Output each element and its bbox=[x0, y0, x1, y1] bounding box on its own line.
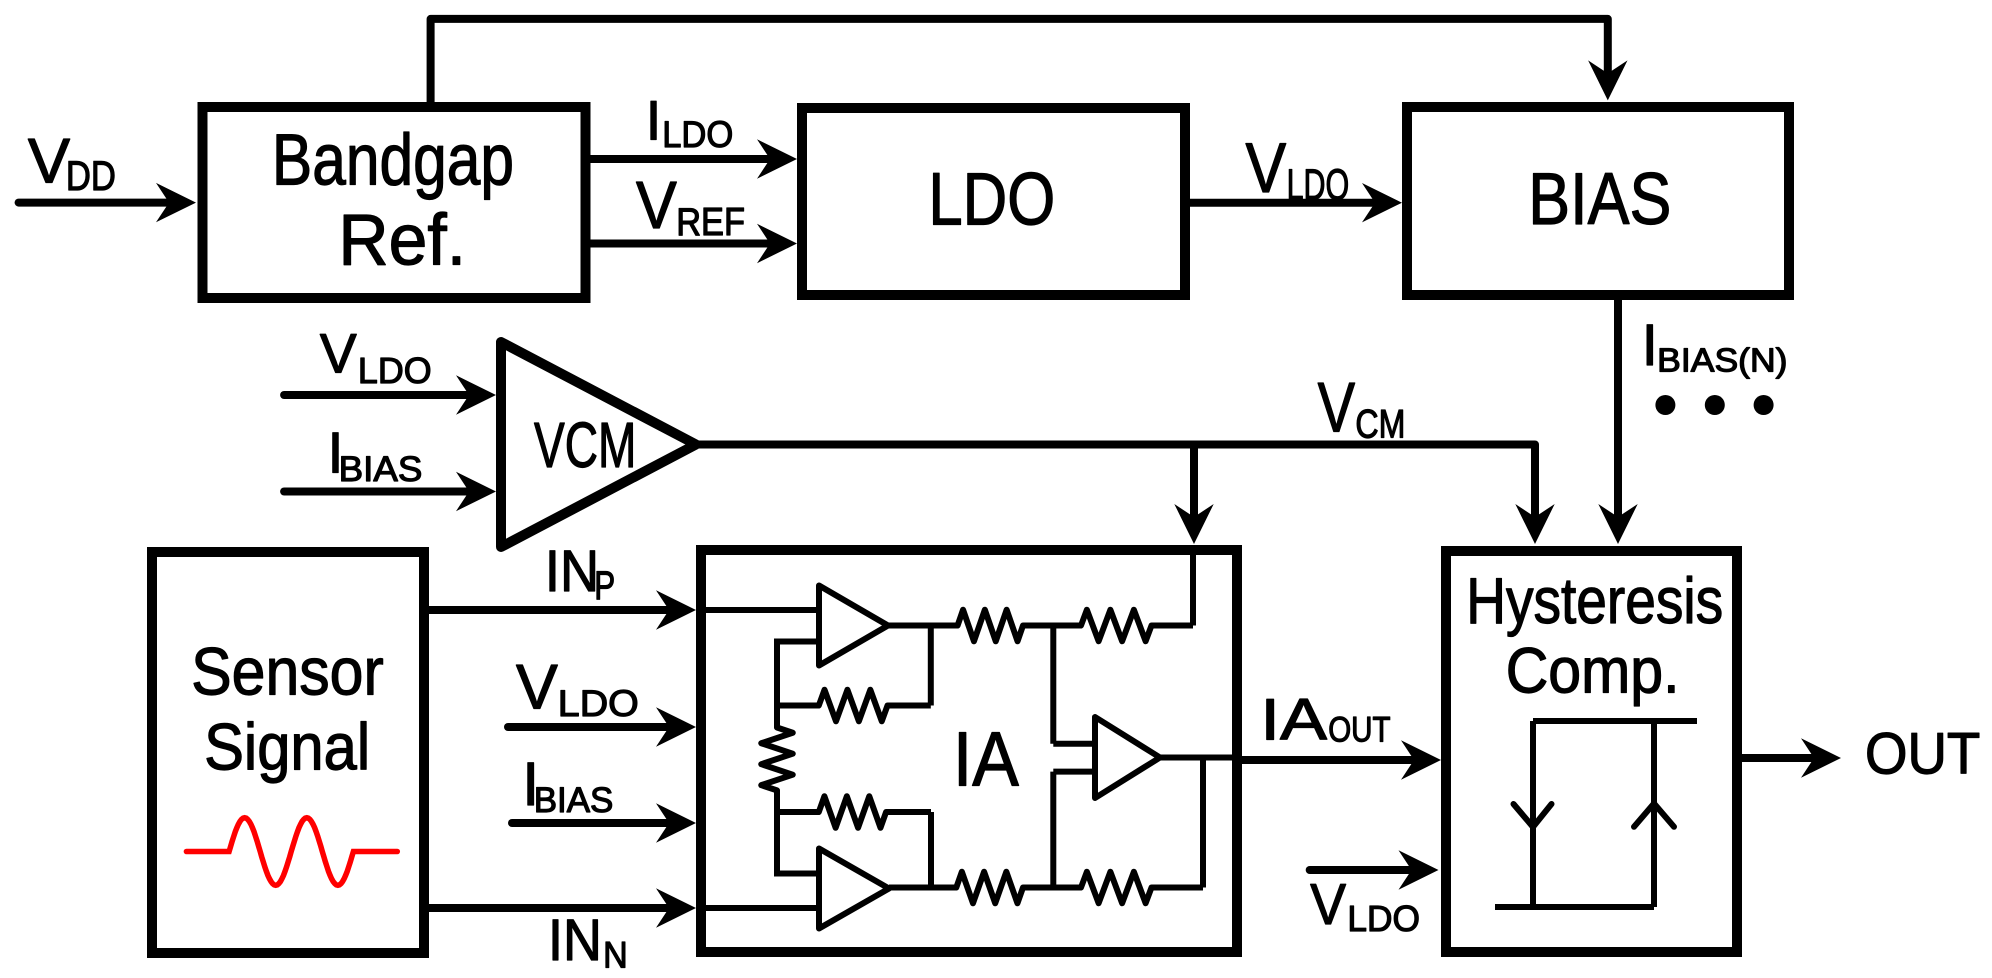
svg-text:I: I bbox=[1642, 313, 1658, 378]
svg-text:LDO: LDO bbox=[662, 114, 733, 155]
svg-text:V: V bbox=[28, 126, 70, 196]
svg-text:V: V bbox=[1246, 128, 1287, 207]
svg-text:N: N bbox=[603, 935, 628, 976]
svg-text:Sensor: Sensor bbox=[191, 635, 384, 710]
svg-text:Hysteresis: Hysteresis bbox=[1466, 564, 1723, 637]
svg-text:I: I bbox=[646, 88, 662, 151]
svg-text:P: P bbox=[594, 564, 615, 608]
svg-text:Bandgap: Bandgap bbox=[272, 120, 514, 201]
svg-text:BIAS(N): BIAS(N) bbox=[1657, 342, 1787, 379]
svg-text:LDO: LDO bbox=[1347, 898, 1420, 939]
svg-text:V: V bbox=[516, 653, 558, 723]
svg-text:IN: IN bbox=[545, 539, 599, 604]
svg-text:Signal: Signal bbox=[204, 710, 370, 784]
svg-text:OUT: OUT bbox=[1328, 711, 1390, 750]
svg-text:BIAS: BIAS bbox=[1528, 158, 1671, 240]
svg-text:IN: IN bbox=[548, 908, 602, 973]
svg-text:LDO: LDO bbox=[1287, 160, 1350, 209]
svg-text:LDO: LDO bbox=[358, 351, 432, 391]
svg-text:REF: REF bbox=[676, 201, 745, 244]
svg-text:CM: CM bbox=[1355, 403, 1405, 447]
svg-text:V: V bbox=[636, 169, 677, 243]
svg-text:V: V bbox=[1310, 873, 1346, 937]
svg-text:BIAS: BIAS bbox=[534, 781, 614, 820]
svg-text:DD: DD bbox=[66, 153, 116, 199]
svg-text:LDO: LDO bbox=[558, 682, 639, 724]
svg-text:VCM: VCM bbox=[534, 409, 636, 481]
svg-text:IA: IA bbox=[953, 717, 1020, 803]
svg-text:V: V bbox=[320, 323, 357, 385]
svg-text:IA: IA bbox=[1260, 687, 1327, 752]
svg-text:BIAS: BIAS bbox=[339, 450, 423, 489]
svg-text:OUT: OUT bbox=[1865, 722, 1980, 787]
svg-text:LDO: LDO bbox=[928, 157, 1055, 240]
svg-text:V: V bbox=[1318, 368, 1356, 447]
svg-text:Ref.: Ref. bbox=[338, 199, 466, 280]
svg-text:Comp.: Comp. bbox=[1506, 634, 1680, 706]
